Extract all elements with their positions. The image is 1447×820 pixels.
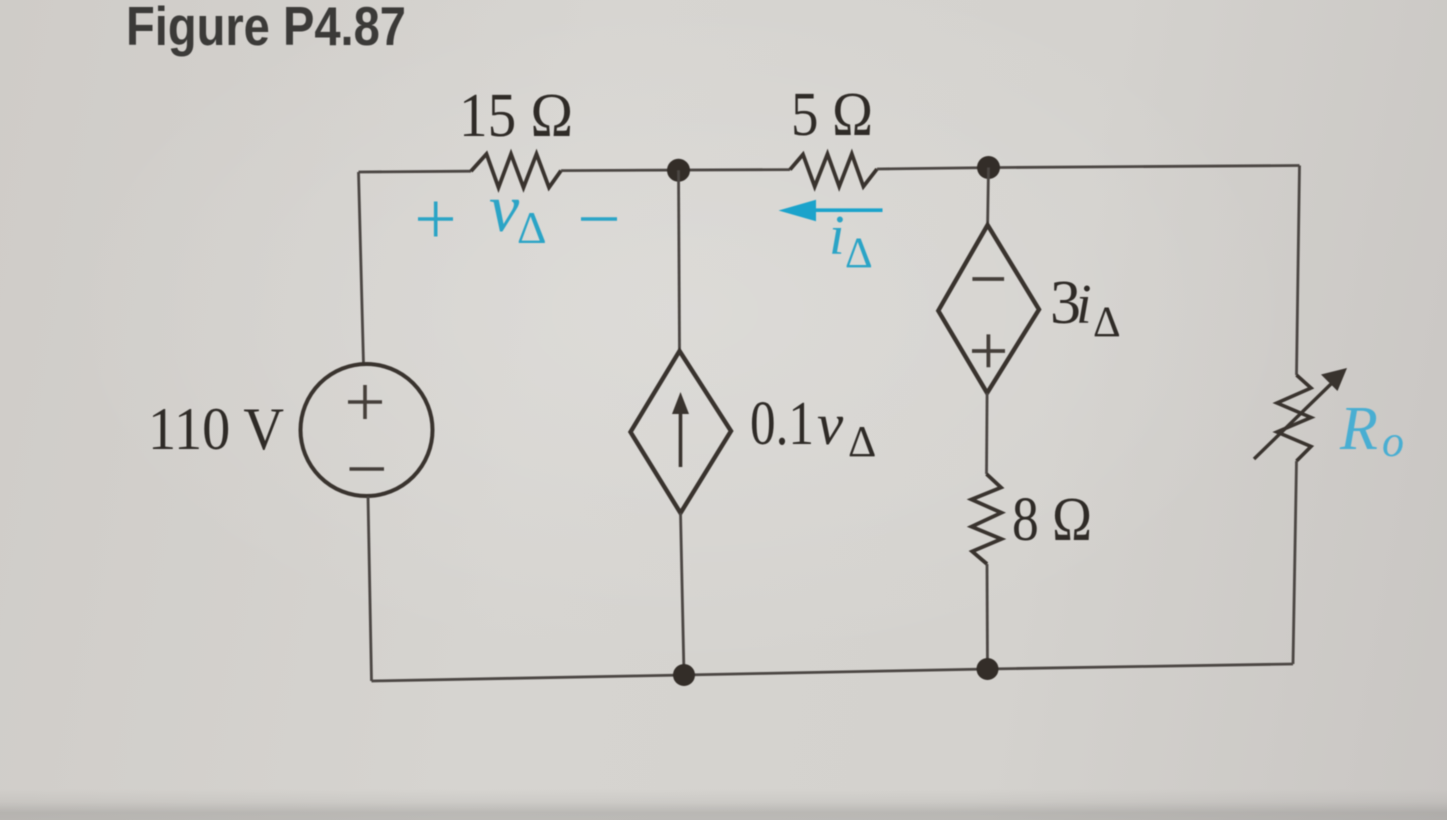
svg-text:Δ: Δ bbox=[1093, 299, 1121, 346]
svg-text:5 Ω: 5 Ω bbox=[791, 81, 873, 149]
wire middle branch lower segment (current source down to node C) bbox=[681, 513, 685, 675]
wire right vertical segment (top-right corner down to Ro) bbox=[1297, 166, 1300, 376]
svg-text:i: i bbox=[1076, 274, 1092, 336]
value label 0.1 v-delta bbox=[750, 390, 876, 466]
label Ro (blue) bbox=[1339, 395, 1404, 466]
wire top-right segment (node B to top-right corner) bbox=[989, 166, 1300, 168]
value label 110 V bbox=[148, 396, 284, 462]
dependent current source 0.1v-delta (diamond with up arrow) bbox=[631, 351, 732, 513]
svg-text:Δ: Δ bbox=[517, 202, 547, 253]
svg-text:Figure P4.87: Figure P4.87 bbox=[126, 0, 406, 57]
wire left vertical segment (top-left corner down to voltage source) bbox=[359, 172, 364, 364]
svg-text:8 Ω: 8 Ω bbox=[1012, 486, 1092, 554]
wire segment (8-ohm resistor down to node D) bbox=[986, 564, 989, 669]
wire middle branch upper segment (node A down to dependent current source) bbox=[679, 170, 680, 351]
node C (bottom junction of dependent current source branch) bbox=[673, 664, 695, 686]
svg-text:0.1: 0.1 bbox=[750, 390, 814, 458]
title Figure P4.87 bbox=[126, 0, 406, 57]
voltage source V1 110V (independent source circle) bbox=[301, 364, 433, 496]
svg-text:110 V: 110 V bbox=[148, 396, 284, 462]
svg-text:v: v bbox=[489, 170, 520, 246]
current arrow i-delta (blue, pointing left) bbox=[779, 200, 883, 221]
polarity label + v-delta - (blue) bbox=[418, 170, 617, 253]
current label i-delta (blue) bbox=[829, 205, 873, 277]
svg-text:R: R bbox=[1339, 395, 1378, 463]
value label 8 ohm bbox=[1012, 486, 1092, 554]
svg-text:v: v bbox=[817, 391, 844, 457]
node D (bottom junction of 8-ohm branch) bbox=[977, 658, 999, 680]
wire branch segment (node B down to dependent voltage source) bbox=[986, 168, 990, 226]
value label 15 ohm bbox=[459, 82, 573, 150]
value label 5 ohm bbox=[791, 81, 873, 149]
svg-text:15 Ω: 15 Ω bbox=[459, 82, 573, 150]
wire right vertical segment (Ro down to bottom-right corner) bbox=[1293, 461, 1297, 664]
wire left vertical segment (voltage source down to bottom-left corner) bbox=[368, 497, 372, 682]
wire bottom segment (node C to node D) bbox=[684, 669, 988, 675]
wire between 5-ohm resistor and node B bbox=[877, 168, 989, 169]
wire bottom segment (bottom-left corner to node C) bbox=[372, 675, 685, 681]
dependent voltage source 3i-delta (diamond with - on top, + below) bbox=[938, 225, 1039, 393]
value label 3 i-delta bbox=[1050, 269, 1121, 346]
wire bottom segment (node D to bottom-right corner) bbox=[988, 664, 1294, 669]
variable resistor Ro (vertical zigzag with diagonal arrow) bbox=[1254, 368, 1347, 461]
resistor 8 ohm (vertical) bbox=[972, 474, 1002, 564]
resistor 5 ohm bbox=[790, 154, 877, 187]
wire segment (dependent voltage source down to 8-ohm resistor) bbox=[985, 393, 988, 474]
svg-text:i: i bbox=[829, 205, 845, 267]
svg-text:Δ: Δ bbox=[848, 417, 876, 466]
wire top-left horizontal segment (from top-left corner to 15-ohm resistor) bbox=[359, 170, 472, 174]
svg-text:Δ: Δ bbox=[845, 230, 873, 277]
node B (top junction at dependent voltage source branch) bbox=[977, 156, 1000, 179]
svg-text:o: o bbox=[1382, 417, 1404, 466]
resistor 15 ohm bbox=[471, 154, 561, 188]
wire between 15-ohm resistor and node A bbox=[561, 170, 790, 171]
node A (top junction between 15-ohm and 5-ohm branches) bbox=[667, 159, 690, 182]
